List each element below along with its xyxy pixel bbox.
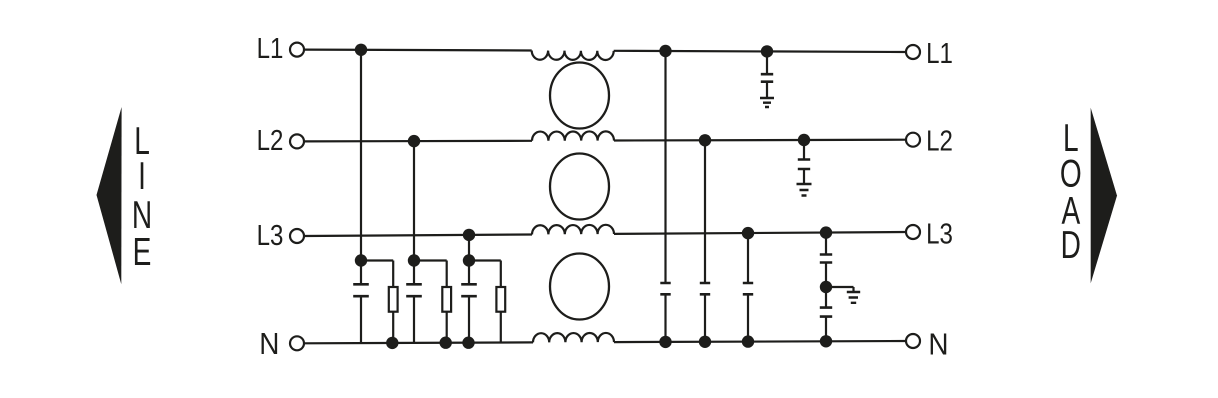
svg-text:I: I — [138, 155, 146, 199]
svg-text:D: D — [1061, 224, 1081, 268]
svg-text:L1: L1 — [926, 37, 953, 70]
svg-text:E: E — [133, 231, 152, 275]
svg-text:L1: L1 — [257, 32, 284, 65]
svg-text:L2: L2 — [257, 124, 284, 157]
svg-text:N: N — [928, 327, 948, 362]
svg-text:L3: L3 — [926, 217, 953, 250]
svg-text:N: N — [259, 327, 279, 362]
svg-text:L3: L3 — [257, 219, 284, 252]
svg-text:L2: L2 — [926, 124, 953, 157]
